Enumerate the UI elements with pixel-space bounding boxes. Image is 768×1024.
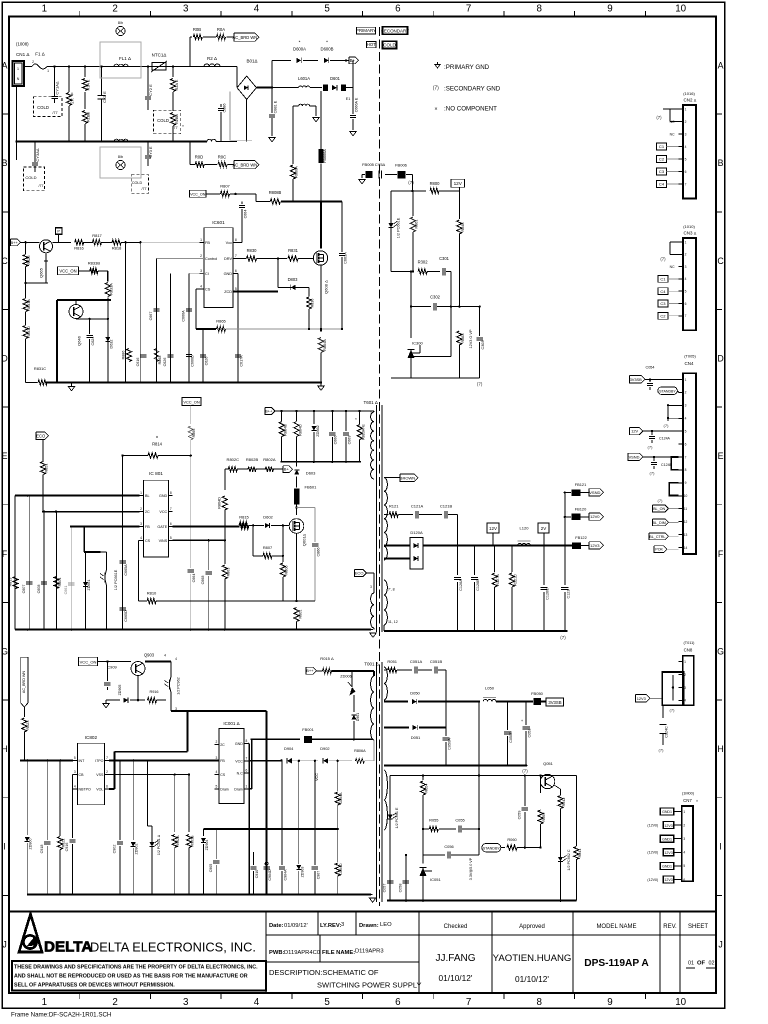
svg-text:F: F [2,549,8,559]
svg-text:R868: R868 [158,356,162,365]
svg-text:12: 12 [684,520,688,524]
svg-text:1/2 PC961 E: 1/2 PC961 E [395,807,399,828]
svg-text:FB005: FB005 [362,162,375,167]
svg-text:4: 4 [175,657,177,661]
svg-text:8: 8 [537,997,543,1008]
svg-text:×: × [434,107,437,113]
svg-text:C126B: C126B [476,579,480,591]
svg-text:CY3AΔ: CY3AΔ [35,148,40,161]
svg-text:D: D [1,353,7,363]
svg-text:VSND: VSND [629,455,640,460]
svg-text:Q601Δ: Q601Δ [302,533,307,546]
svg-text:R831: R831 [288,248,299,253]
svg-text:R863: R863 [461,333,465,342]
svg-text:C054: C054 [645,366,654,370]
svg-text:D864D: D864D [339,863,343,875]
svg-text:SECONDARY: SECONDARY [381,28,409,33]
svg-text:R1A E: R1A E [87,79,91,90]
svg-text:Δ: Δ [694,232,697,236]
svg-text:AC_BRD WN: AC_BRD WN [232,162,257,167]
svg-text:Q903: Q903 [144,653,155,658]
svg-text:D050: D050 [410,691,420,696]
svg-text:R823: R823 [26,720,30,729]
svg-text:1: 1 [370,411,372,415]
svg-text:C663A: C663A [344,252,348,264]
svg-text:C124A: C124A [659,437,671,441]
svg-text:7: 7 [245,756,247,760]
svg-text:5: 5 [683,864,685,868]
svg-text:C051A: C051A [410,659,423,664]
svg-text:5: 5 [324,997,330,1008]
svg-text:Date:: Date: [269,923,284,929]
svg-text:3: 3 [341,922,344,928]
svg-text:I: I [719,842,721,852]
svg-text:R836: R836 [311,299,315,308]
svg-text:R127A: R127A [496,574,500,586]
svg-text:COLD: COLD [25,175,36,180]
svg-text:C910: C910 [255,870,259,879]
svg-text:CN4: CN4 [685,361,694,366]
svg-text:(T005): (T005) [684,354,696,359]
svg-text:Approved: Approved [519,924,545,930]
svg-text:COLD: COLD [132,181,143,185]
svg-text:D864A: D864A [339,792,343,804]
svg-text:R806A: R806A [354,749,366,753]
svg-text:ZD006: ZD006 [340,675,351,679]
svg-text:ZD900: ZD900 [29,838,33,849]
svg-text:R903B: R903B [191,835,195,847]
svg-text:*: * [182,124,184,129]
svg-text:R813A -E: R813A -E [362,424,366,440]
svg-text:VCC_ON: VCC_ON [59,269,76,274]
svg-text:T601 Δ: T601 Δ [363,400,377,405]
svg-text:C909: C909 [107,665,116,670]
svg-text:11, 12: 11, 12 [388,620,398,624]
svg-text:(7): (7) [522,769,528,774]
svg-text:5: 5 [74,756,76,760]
svg-text:R2 Δ: R2 Δ [207,56,217,61]
svg-text:ZD903: ZD903 [300,867,304,878]
svg-text:2: 2 [112,4,117,15]
svg-text:Q051: Q051 [543,761,554,766]
svg-text:Drawn:: Drawn: [359,923,379,929]
svg-text:5: 5 [324,4,330,15]
svg-text:C669: C669 [347,436,351,445]
svg-text:PWB:: PWB: [269,950,285,956]
svg-text:R916: R916 [149,690,158,694]
svg-text:D902: D902 [320,746,329,751]
svg-text:10: 10 [675,4,686,15]
svg-text:HOT: HOT [367,42,376,47]
svg-text:NTC1Δ: NTC1Δ [152,53,167,58]
svg-text:R831D: R831D [27,326,31,338]
svg-text:C661: C661 [64,586,68,595]
svg-text:R804: R804 [58,578,62,587]
svg-text:B++: B++ [265,408,273,413]
svg-text:H: H [717,744,723,754]
svg-text::NO COMPONENT: :NO COMPONENT [444,106,497,113]
svg-text:D602: D602 [263,515,273,520]
svg-text:2: 2 [32,60,34,64]
svg-text:R863: R863 [226,568,230,577]
svg-text:C881 E: C881 E [274,100,278,113]
svg-text:3: 3 [685,404,687,408]
svg-text:COLD: COLD [157,118,169,123]
svg-text:2: 2 [685,253,687,257]
svg-text:C3: C3 [660,301,666,306]
svg-text:D601: D601 [330,76,341,81]
svg-text:D904: D904 [284,746,294,751]
svg-text:REV.: REV. [663,924,677,930]
svg-text:4: 4 [254,997,260,1008]
svg-text:1: 1 [47,69,49,73]
svg-text:(1016): (1016) [683,91,695,96]
svg-text:B: B [2,158,8,168]
svg-text:C665D: C665D [124,610,128,622]
svg-text:C667: C667 [149,312,153,321]
svg-text:C059: C059 [517,811,521,820]
svg-text:7: 7 [466,4,471,15]
svg-text:3.3V@5.0 VP: 3.3V@5.0 VP [469,857,473,880]
svg-text:NC: NC [670,133,675,137]
svg-text:2: 2 [112,997,117,1008]
svg-text:IC001 Δ: IC001 Δ [223,721,239,726]
svg-text:C666A E: C666A E [355,97,359,112]
svg-text:3: 3 [683,837,685,841]
svg-text:3: 3 [183,4,189,15]
svg-text:12V: 12V [489,526,497,531]
svg-text:IC051: IC051 [430,877,441,882]
svg-text:COLD: COLD [383,43,396,48]
svg-text:2C: 2C [145,510,150,514]
svg-text:B++: B++ [10,240,18,245]
svg-text:3: 3 [685,265,687,269]
svg-text:2: 2 [200,254,202,258]
svg-text:12V3: 12V3 [637,696,646,701]
svg-text:1: 1 [684,660,686,664]
svg-text:R886: R886 [122,351,126,360]
svg-text:1/2 PC901 Δ: 1/2 PC901 Δ [157,834,161,855]
svg-text:6: 6 [685,442,687,446]
svg-text:VOL: VOL [96,788,103,792]
svg-text:(12V0): (12V0) [647,851,658,855]
svg-text:CN1 Δ: CN1 Δ [16,52,30,57]
svg-text:8: 8 [685,468,687,472]
svg-text:01: 01 [688,961,694,967]
svg-text:02: 02 [709,961,715,967]
svg-text:7: 7 [685,455,687,459]
svg-text:5: 5 [170,536,172,540]
svg-text:(7): (7) [660,256,666,261]
svg-text:7: 7 [235,254,237,258]
svg-text:GND: GND [159,494,168,498]
svg-text:Δ: Δ [694,99,697,103]
svg-text:(7): (7) [560,635,566,640]
svg-text:VCC_ON: VCC_ON [80,660,97,665]
svg-text:(7): (7) [477,382,483,387]
svg-text:VSS: VSS [96,773,104,777]
svg-text:9: 9 [607,4,612,15]
svg-text:Q646: Q646 [77,335,82,346]
svg-text:R802A: R802A [263,457,276,462]
svg-text:C617A: C617A [240,355,244,367]
svg-text:1: 1 [42,4,47,15]
svg-text:FB122: FB122 [575,535,587,540]
svg-text:1: 1 [685,107,687,111]
svg-text:R015 Δ: R015 Δ [320,656,334,661]
svg-text:D119APR4C0: D119APR4C0 [284,950,320,956]
svg-text:3: 3 [74,770,76,774]
svg-text:3V3SB: 3V3SB [548,700,561,705]
svg-text:STANDBY: STANDBY [483,847,501,851]
svg-text:DELTA: DELTA [44,939,92,956]
svg-text:12V3 O VP: 12V3 O VP [469,329,473,348]
svg-text:R848: R848 [461,222,465,231]
svg-text:Δ: Δ [71,92,74,96]
svg-text:1/2 PC962: 1/2 PC962 [177,677,181,694]
svg-text:P: P [57,230,60,234]
svg-text:FB666A: FB666A [323,149,327,163]
svg-text:CS: CS [205,288,211,292]
svg-text:R902A: R902A [176,835,180,847]
svg-text:D803: D803 [288,277,299,282]
svg-text:R864D: R864D [299,424,303,436]
svg-text:6: 6 [245,768,247,772]
svg-text:C3: C3 [659,169,665,174]
svg-text:CY3 E: CY3 E [149,146,153,157]
svg-text:SWITCHING POWER SUPPLY: SWITCHING POWER SUPPLY [317,981,421,990]
svg-text:Drain: Drain [234,787,243,791]
svg-text:/77: /77 [39,184,44,188]
svg-text:SELL OF APPARATUSES OR DEVICES: SELL OF APPARATUSES OR DEVICES WITHOUT P… [14,983,175,989]
svg-text:4: 4 [685,417,687,421]
svg-text:N: N [17,77,20,81]
svg-text:R055: R055 [429,818,439,823]
svg-text:DELTA ELECTRONICS, INC.: DELTA ELECTRONICS, INC. [90,940,256,955]
svg-text:C907: C907 [316,871,320,880]
svg-text:R054: R054 [425,783,429,792]
svg-text:(1010): (1010) [683,224,695,229]
svg-text:C607: C607 [22,585,26,594]
svg-text:OF: OF [697,961,706,967]
svg-text:C665A: C665A [124,564,128,576]
svg-text:C4: C4 [659,182,665,187]
svg-text:C058: C058 [399,884,403,893]
svg-text:7: 7 [106,756,108,760]
svg-text:R2A E: R2A E [175,79,179,90]
svg-text:B++: B++ [306,668,314,673]
svg-text:1: 1 [200,238,202,242]
svg-text:1/2 PC662 C: 1/2 PC662 C [567,849,571,870]
svg-text:2C: 2C [220,743,225,747]
svg-text:VINS: VINS [159,539,168,543]
svg-text:CI: CI [205,272,209,276]
svg-text:1: 1 [683,810,685,814]
svg-text:R817: R817 [92,233,102,238]
svg-text:NBTPO: NBTPO [79,788,92,792]
svg-text:THESE DRAWINGS AND SPECIFICATI: THESE DRAWINGS AND SPECIFICATIONS ARE TH… [14,965,258,971]
svg-text:8: 8 [245,739,247,743]
svg-text:R830: R830 [247,248,258,253]
svg-text:R802C: R802C [227,457,240,462]
svg-text:FB: FB [220,759,225,763]
svg-text:3: 3 [183,997,189,1008]
svg-text:FB006: FB006 [395,163,408,168]
svg-text:R851: R851 [45,463,49,472]
svg-text:CN7: CN7 [683,798,692,803]
svg-text:D901: D901 [356,713,360,722]
svg-text:8: 8 [537,4,543,15]
svg-text:C301: C301 [439,256,450,261]
svg-text:E: E [718,451,724,461]
svg-text:6: 6 [685,302,687,306]
svg-text:R807: R807 [263,545,272,550]
svg-text:2: 2 [140,507,142,511]
svg-text:C624: C624 [91,336,95,345]
svg-text:R800: R800 [430,181,441,186]
svg-text:CY2 E: CY2 E [148,84,153,96]
svg-text:9: 9 [685,481,687,485]
svg-text:7: 7 [170,507,172,511]
svg-text:4: 4 [140,536,142,540]
svg-text:A: A [2,61,8,71]
svg-text:C918: C918 [40,845,44,854]
svg-text:C626: C626 [205,357,209,366]
svg-text:C626: C626 [163,358,167,367]
svg-text:(7): (7) [650,471,656,476]
svg-text:7: 7 [466,997,471,1008]
svg-text:IC601: IC601 [212,220,225,225]
svg-text:C: C [1,256,8,266]
svg-text:I: I [3,842,5,852]
svg-text:R666A: R666A [295,166,299,178]
svg-text:12V3: 12V3 [590,543,600,548]
svg-text:YAOTIEN.HUANG: YAOTIEN.HUANG [493,953,572,964]
svg-text:2: 2 [685,120,687,124]
svg-text:FB001: FB001 [302,727,314,732]
svg-text:01/10/12': 01/10/12' [515,974,549,984]
svg-text:1: 1 [685,240,687,244]
svg-text:CB: CB [79,773,85,777]
svg-text:A: A [718,61,724,71]
svg-text:C1: C1 [660,277,666,282]
svg-text:FB: FB [205,241,210,245]
svg-text:D600A: D600A [293,47,306,52]
svg-text:1/2 PC661E: 1/2 PC661E [397,217,401,238]
svg-text:C4: C4 [660,289,666,294]
svg-text:FB601: FB601 [305,485,318,490]
svg-text:1/2 PC661E: 1/2 PC661E [114,569,118,590]
svg-text:GND1: GND1 [662,837,672,841]
svg-text:R801: R801 [299,609,303,618]
svg-text:*: * [326,40,328,45]
svg-text:R302: R302 [418,260,429,265]
svg-text:14: 14 [684,546,688,550]
svg-text:4: 4 [215,770,217,774]
svg-text:C302: C302 [430,295,441,300]
svg-text:4: 4 [685,277,687,281]
svg-text:(7): (7) [648,445,654,450]
svg-text:6: 6 [685,170,687,174]
svg-text:D: D [717,353,723,363]
svg-text:COLD: COLD [37,105,49,110]
svg-text:R922: R922 [62,839,66,848]
svg-text:3: 3 [370,585,372,589]
svg-text:01/10/12': 01/10/12' [439,973,473,983]
svg-text:C124C: C124C [665,726,669,738]
svg-text:C2: C2 [659,157,665,162]
svg-text:CY5Δ: CY5Δ [375,162,386,167]
svg-text:R2BB: R2BB [175,114,179,124]
svg-text:(7): (7) [670,708,676,713]
svg-text:ECO: ECO [36,433,46,438]
svg-text:C126C: C126C [545,588,549,600]
svg-text:JJ.FANG: JJ.FANG [435,953,475,964]
svg-text:R060: R060 [507,837,517,842]
svg-text:5: 5 [235,287,237,291]
svg-text:(1M00): (1M00) [682,792,695,796]
svg-text:C056: C056 [444,844,453,849]
svg-text:E: E [2,451,8,461]
svg-text:R814: R814 [152,442,163,447]
svg-text:CY1AΔ: CY1AΔ [55,81,60,94]
svg-text:C121A: C121A [411,504,424,509]
svg-text:STANDBY: STANDBY [659,390,676,394]
svg-text:D119APR3: D119APR3 [355,949,384,955]
svg-text:01/09/12': 01/09/12' [284,923,308,929]
svg-text:C664: C664 [244,210,248,219]
svg-text:CN3: CN3 [684,231,693,236]
svg-text:6: 6 [395,997,401,1008]
svg-text:(12V0): (12V0) [647,878,658,882]
svg-text:R051: R051 [387,659,397,664]
svg-text:ZD662: ZD662 [316,425,320,436]
svg-text:ZD905: ZD905 [118,685,122,696]
svg-text:4: 4 [685,145,687,149]
svg-text:(1008): (1008) [16,42,29,47]
svg-text:CS: CS [145,539,151,543]
svg-text:R826: R826 [27,255,31,264]
svg-text:VCC: VCC [235,759,243,763]
svg-text:D051: D051 [411,735,421,740]
svg-text:7', 8: 7', 8 [388,588,395,592]
svg-text:8/h: 8/h [118,21,123,25]
svg-text:(7): (7) [656,115,662,120]
svg-text:R841: R841 [578,849,582,858]
svg-text:CS: CS [220,773,226,777]
svg-text:R861: R861 [415,219,419,228]
svg-text:12V3: 12V3 [664,824,672,828]
svg-text:2: 2 [685,391,687,395]
svg-text:FB121: FB121 [575,482,587,487]
svg-text:6: 6 [106,785,108,789]
svg-text:AC_BRD WN: AC_BRD WN [232,35,257,40]
svg-text:C121B: C121B [440,504,453,509]
svg-text:GATE: GATE [157,525,167,529]
svg-text:4: 4 [683,851,685,855]
svg-text:F: F [718,549,724,559]
svg-text:J: J [718,939,722,949]
svg-text:2R: 2R [70,98,75,103]
svg-text:R864A: R864A [323,339,327,351]
svg-text:C053: C053 [528,728,532,737]
svg-text:8/b: 8/b [118,155,123,159]
svg-text:12V3: 12V3 [664,878,672,882]
svg-text:3: 3 [215,756,217,760]
svg-text:DPS-119AP A: DPS-119AP A [584,958,649,969]
svg-text:Drain: Drain [220,788,229,792]
svg-text:(T011): (T011) [684,641,696,645]
